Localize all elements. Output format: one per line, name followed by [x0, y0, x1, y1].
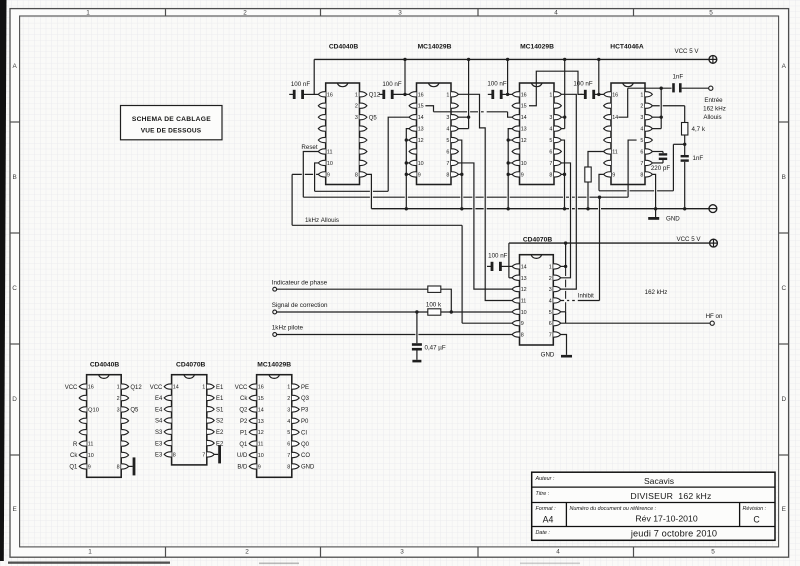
svg-text:7: 7	[202, 452, 205, 458]
svg-text:E2: E2	[216, 430, 224, 436]
svg-text:CD4040B: CD4040B	[90, 362, 120, 369]
capacitor 100 nF	[487, 253, 508, 271]
svg-text:6: 6	[446, 150, 449, 156]
terminal Indicateur de phase	[272, 279, 328, 291]
svg-text:S1: S1	[216, 407, 224, 413]
svg-text:10: 10	[258, 453, 264, 459]
wire R3 to U5 pin 10	[441, 311, 512, 313]
svg-text:16: 16	[612, 92, 618, 98]
wire C6 to Entree terminal	[682, 87, 709, 89]
capacitor C9 0,47 uF	[412, 312, 446, 362]
svg-text:Q0: Q0	[301, 442, 310, 448]
svg-text:3: 3	[640, 115, 643, 121]
svg-text:E3: E3	[155, 453, 163, 459]
svg-text:14: 14	[173, 385, 179, 391]
svg-text:13: 13	[258, 419, 264, 425]
svg-text:Titre :: Titre :	[536, 491, 550, 497]
svg-text:6: 6	[549, 321, 552, 327]
svg-text:2: 2	[355, 104, 358, 110]
wire U3 pin 15 over body to C4	[529, 71, 582, 106]
svg-text:P1: P1	[240, 430, 248, 436]
svg-text:1: 1	[88, 549, 92, 556]
wire U5 pin 4 from reset drop	[561, 300, 600, 302]
svg-text:100 nF: 100 nF	[573, 81, 592, 88]
svg-text:11: 11	[521, 298, 527, 304]
svg-text:1: 1	[640, 92, 643, 98]
node R4/R3 junction	[450, 310, 453, 313]
svg-text:Q1: Q1	[69, 465, 78, 471]
svg-text:3: 3	[549, 115, 552, 121]
svg-text:9: 9	[418, 172, 421, 178]
svg-text:MC14029B: MC14029B	[520, 44, 554, 51]
wire R1 to GND bus	[587, 182, 589, 209]
svg-text:Ck: Ck	[240, 396, 248, 402]
svg-text:6: 6	[287, 442, 290, 448]
wire U3 pin 5 / pin 8 to GND bus	[561, 140, 564, 209]
svg-text:D: D	[781, 396, 786, 403]
svg-text:11: 11	[88, 442, 94, 448]
wire R4 to node	[441, 289, 452, 312]
svg-text:Q5: Q5	[130, 408, 139, 414]
node U4 pin3 junction	[660, 87, 663, 119]
node U5 pin1 junction	[564, 265, 567, 268]
resistor R4	[428, 286, 441, 292]
svg-text:3: 3	[355, 115, 358, 121]
wire U3 pins 13,12,10,9 to GND bus	[508, 129, 512, 209]
svg-text:8: 8	[287, 464, 290, 470]
svg-text:SCHEMA DE CABLAGE: SCHEMA DE CABLAGE	[132, 116, 211, 123]
wire U4 pin 2 to R2 4,7k	[652, 106, 684, 123]
svg-text:9: 9	[88, 464, 91, 470]
CD4040B U6	[65, 362, 143, 478]
node VCC rail / U5 pin1 riser	[564, 241, 567, 244]
svg-text:1nF: 1nF	[693, 155, 704, 162]
node junction dots on GND bus	[405, 207, 687, 210]
svg-text:GND: GND	[301, 465, 315, 471]
wire U2 pin 1 to U5 pin 11	[458, 94, 512, 300]
svg-text:9: 9	[258, 464, 261, 470]
svg-text:9: 9	[521, 172, 524, 178]
svg-text:Ck: Ck	[70, 453, 78, 459]
svg-text:10: 10	[327, 161, 333, 167]
wire U3 pin 1 to U5 pin 3	[561, 94, 577, 289]
svg-text:3: 3	[398, 10, 402, 17]
wire U4 pins 3,4 to C6 node	[652, 88, 661, 128]
wire U1 pin 8 to GND bus	[367, 174, 372, 208]
svg-text:13: 13	[418, 127, 424, 133]
MC14029B U8	[235, 362, 315, 478]
svg-text:Q12: Q12	[369, 93, 381, 99]
capacitor 100 nF	[379, 81, 402, 99]
svg-text:Date :: Date :	[536, 530, 551, 536]
svg-text:1: 1	[355, 92, 358, 98]
svg-text:16: 16	[88, 385, 94, 391]
CD4040B U1	[318, 44, 380, 185]
svg-text:Q2: Q2	[239, 408, 248, 414]
svg-text:1: 1	[549, 92, 552, 98]
power terminal 0V (minus)	[709, 205, 717, 213]
svg-text:VCC: VCC	[150, 385, 163, 391]
svg-text:CI: CI	[301, 430, 307, 436]
svg-text:Q12: Q12	[130, 385, 142, 391]
svg-text:HCT4046A: HCT4046A	[610, 44, 644, 51]
svg-text:A: A	[782, 63, 787, 70]
svg-text:B/D: B/D	[237, 465, 248, 471]
svg-text:E4: E4	[155, 407, 163, 413]
svg-text:R: R	[73, 442, 78, 448]
wire U2 pin 5 / pin 8 to GND bus	[458, 140, 461, 209]
svg-text:Révision :: Révision :	[743, 506, 767, 512]
svg-text:220 pF: 220 pF	[651, 165, 670, 172]
svg-text:CO: CO	[301, 453, 310, 459]
svg-text:E1: E1	[216, 396, 224, 402]
svg-text:3: 3	[446, 115, 449, 121]
svg-text:8: 8	[521, 333, 524, 339]
wire U1 pin 9 to 1kHz Allouis bus	[292, 174, 462, 323]
svg-text:4: 4	[287, 419, 290, 425]
svg-text:2: 2	[243, 10, 247, 17]
wire U5 pin1 down to pins 5,6 (crossing gaps)	[561, 266, 566, 323]
svg-text:VUE DE DESSOUS: VUE DE DESSOUS	[141, 127, 202, 134]
wire R2 to junction node	[684, 135, 686, 144]
svg-text:10: 10	[521, 310, 527, 316]
capacitor 100 nF	[573, 81, 595, 100]
svg-text:16: 16	[258, 385, 264, 391]
capacitor C8 1nF	[681, 144, 704, 209]
svg-text:12: 12	[258, 430, 264, 436]
svg-text:3: 3	[287, 407, 290, 413]
svg-text:7: 7	[446, 161, 449, 167]
svg-text:16: 16	[327, 92, 333, 98]
svg-text:100 nF: 100 nF	[488, 253, 507, 260]
svg-text:Numéro du document ou référenc: Numéro du document ou référence :	[570, 506, 657, 512]
svg-text:Inhibit: Inhibit	[578, 293, 594, 299]
node C3/U3 pin16 junction	[506, 93, 509, 96]
wire junction to U4 pin 9 (under body)	[599, 144, 685, 191]
svg-text:5: 5	[287, 430, 290, 436]
svg-text:E3: E3	[155, 441, 163, 447]
svg-text:Rév 17-10-2010: Rév 17-10-2010	[635, 513, 697, 523]
svg-text:5: 5	[709, 10, 713, 17]
MC14029B U2	[409, 44, 458, 185]
svg-text:Signal de correction: Signal de correction	[272, 302, 328, 309]
terminal 1kHz pilote	[272, 325, 304, 337]
svg-text:1: 1	[202, 385, 205, 391]
capacitor C7 220 pF	[651, 152, 670, 172]
wire VCC rail (middle)	[509, 243, 709, 278]
resistor R1	[585, 167, 591, 182]
terminal Signal de correction	[272, 302, 328, 314]
svg-text:6: 6	[640, 150, 643, 156]
svg-text:1: 1	[86, 10, 90, 17]
svg-text:VCC 5 V: VCC 5 V	[676, 236, 701, 243]
svg-text:CD4040B: CD4040B	[329, 44, 359, 51]
svg-text:DIVISEUR 162 kHz: DIVISEUR 162 kHz	[630, 491, 711, 501]
wire U5 pin 7 to ground	[561, 335, 567, 355]
svg-text:7: 7	[549, 333, 552, 339]
svg-text:P3: P3	[301, 408, 309, 414]
svg-text:4: 4	[554, 10, 558, 17]
wire C1 to U1 pin 16	[303, 93, 319, 95]
wire reset bus drop to U5 pin 4	[599, 197, 601, 300]
svg-text:C: C	[781, 285, 786, 292]
svg-text:15: 15	[418, 104, 424, 110]
svg-text:8: 8	[640, 172, 643, 178]
svg-text:3: 3	[400, 549, 404, 556]
svg-text:U/D: U/D	[237, 453, 248, 459]
wire U5 pin 6 to HF on terminal	[561, 322, 710, 324]
svg-text:7: 7	[640, 161, 643, 167]
svg-text:1: 1	[446, 92, 449, 98]
svg-text:14: 14	[521, 115, 527, 121]
node junction dots on VCC top rail	[403, 58, 600, 61]
title block	[532, 472, 775, 540]
node C4/U4 pin16 junction	[597, 93, 600, 96]
svg-text:14: 14	[258, 407, 264, 413]
wire C3 to U3 pin 16	[501, 59, 512, 94]
ground tick U7 pin 7	[214, 445, 221, 463]
svg-text:1: 1	[549, 264, 552, 270]
wire U2 pin 15 to U3 pin 14 (chain, over body)	[425, 106, 512, 117]
svg-text:2: 2	[287, 396, 290, 402]
wire C4 to U4 pin 16	[594, 59, 604, 94]
ground symbol GND (U5)	[541, 352, 572, 359]
terminal Entree 162 kHz Allouis	[703, 86, 726, 121]
svg-text:VCC: VCC	[235, 385, 248, 391]
svg-text:4: 4	[446, 127, 449, 133]
svg-text:S4: S4	[155, 419, 163, 425]
node R2/C8/U4 pin9 junction	[683, 143, 686, 146]
svg-text:12: 12	[521, 287, 527, 293]
svg-text:1nF: 1nF	[672, 74, 683, 81]
svg-text:11: 11	[258, 442, 264, 448]
svg-text:D: D	[12, 396, 17, 403]
svg-text:8: 8	[446, 172, 449, 178]
svg-text:MC14029B: MC14029B	[257, 362, 291, 369]
svg-text:7: 7	[287, 453, 290, 459]
wire U1 pin 11 Reset to reset bus	[303, 152, 318, 198]
terminal HF on	[706, 313, 723, 326]
wire U2 pins 13,12,10,9 to GND bus	[406, 129, 409, 209]
node U3 pin3 junction	[563, 115, 566, 118]
svg-text:15: 15	[521, 104, 527, 110]
node dots U3 left pins	[507, 138, 510, 176]
wire U1 pin 10 to U2 pin 14 (chain)	[315, 117, 410, 191]
svg-text:GND: GND	[541, 352, 555, 359]
CD4070B U5	[512, 236, 561, 345]
svg-text:14: 14	[418, 115, 424, 121]
svg-text:GND: GND	[666, 216, 680, 223]
svg-text:13: 13	[521, 127, 527, 133]
wire VCC rail to U2 pins 3,4	[458, 59, 468, 128]
svg-text:15: 15	[258, 396, 264, 402]
svg-text:10: 10	[88, 453, 94, 459]
svg-text:14: 14	[612, 115, 618, 121]
wire U2 pin 7 to U5 pin 12	[458, 163, 512, 289]
ground symbol GND (U4)	[648, 216, 680, 223]
CD4070B U7	[150, 362, 224, 465]
svg-text:Sacavis: Sacavis	[644, 476, 674, 486]
svg-text:5: 5	[549, 138, 552, 144]
svg-text:Entrée: Entrée	[704, 97, 723, 104]
svg-text:VCC 5 V: VCC 5 V	[674, 48, 699, 55]
node reset bus to U5 pin 4 drop	[598, 196, 601, 199]
svg-text:3: 3	[549, 287, 552, 293]
svg-text:7: 7	[549, 161, 552, 167]
svg-text:4: 4	[640, 127, 643, 133]
wire C2 to U2 pin 16	[392, 59, 409, 94]
power terminal VCC 5 V (top)	[674, 48, 716, 63]
svg-text:162 kHz: 162 kHz	[703, 106, 726, 113]
svg-text:12: 12	[418, 138, 424, 144]
note box SCHEMA DE CABLAGE / VUE DE DESSOUS	[121, 106, 223, 140]
svg-text:Q5: Q5	[369, 115, 378, 121]
svg-text:5: 5	[549, 310, 552, 316]
svg-text:10: 10	[418, 161, 424, 167]
svg-text:S3: S3	[155, 430, 163, 436]
node 0,47uF tap	[415, 310, 418, 313]
svg-text:9: 9	[327, 172, 330, 178]
svg-text:2: 2	[117, 396, 120, 402]
svg-text:S2: S2	[216, 419, 224, 425]
svg-text:P0: P0	[301, 419, 309, 425]
svg-text:Q1: Q1	[239, 442, 248, 448]
svg-text:11: 11	[327, 150, 333, 156]
node dots U2 left pins	[405, 138, 408, 176]
svg-text:MC14029B: MC14029B	[418, 44, 452, 51]
wire Indicateur de phase to R4	[277, 288, 428, 290]
svg-text:2: 2	[245, 549, 249, 556]
svg-text:Q3: Q3	[301, 396, 310, 402]
svg-text:CD4070B: CD4070B	[523, 236, 553, 243]
svg-text:8: 8	[117, 464, 120, 470]
svg-text:8: 8	[355, 172, 358, 178]
svg-text:14: 14	[521, 264, 527, 270]
svg-text:Auteur :: Auteur :	[535, 476, 555, 482]
svg-text:Allouis: Allouis	[703, 114, 721, 121]
node C2/U2 pin16 junction	[403, 93, 406, 96]
VCC top rail wire	[314, 59, 708, 94]
svg-text:16: 16	[418, 92, 424, 98]
svg-text:B: B	[12, 174, 16, 181]
resistor R2 4,7k	[682, 123, 688, 136]
svg-text:C: C	[12, 285, 17, 292]
svg-text:9: 9	[612, 172, 615, 178]
svg-text:Indicateur de phase: Indicateur de phase	[272, 279, 328, 286]
wire U4 pin 14 over body to C6 1nF	[618, 88, 671, 117]
svg-text:8: 8	[549, 172, 552, 178]
svg-text:4: 4	[556, 549, 560, 556]
svg-text:16: 16	[521, 92, 527, 98]
svg-text:4: 4	[549, 298, 552, 304]
svg-text:100 nF: 100 nF	[382, 81, 401, 88]
capacitor 100 nF	[289, 81, 310, 99]
svg-text:100 nF: 100 nF	[291, 81, 310, 88]
svg-text:P2: P2	[240, 419, 248, 425]
svg-text:1kHz Allouis: 1kHz Allouis	[305, 217, 339, 224]
wire GND bus	[371, 208, 709, 210]
node U2 pin3 junction	[467, 115, 470, 118]
svg-text:6: 6	[549, 150, 552, 156]
svg-text:Format :: Format :	[536, 506, 557, 512]
wire U4 pin 5 through body to reset bus	[628, 140, 637, 197]
svg-text:1: 1	[287, 385, 290, 391]
resistor R3 100 k	[428, 309, 441, 315]
svg-text:1: 1	[117, 385, 120, 391]
node U3 pin8 junction	[563, 173, 566, 176]
svg-text:162 kHz: 162 kHz	[645, 289, 668, 296]
svg-text:1kHz pilote: 1kHz pilote	[272, 325, 304, 332]
wire Signal de correction to R3	[277, 311, 428, 313]
svg-text:8: 8	[173, 452, 176, 458]
svg-text:A4: A4	[543, 514, 554, 524]
svg-text:A: A	[12, 63, 17, 70]
svg-text:0,47 µF: 0,47 µF	[425, 345, 446, 352]
wire U3 pin 7 to U5 pin 2	[561, 163, 571, 278]
svg-text:4: 4	[549, 127, 552, 133]
wire 1kHz Allouis to U5 pin 9	[462, 322, 512, 324]
wire VCC rail to U3 pins 3,4	[561, 59, 564, 128]
svg-text:5: 5	[446, 138, 449, 144]
svg-text:2: 2	[549, 276, 552, 282]
svg-text:9: 9	[521, 321, 524, 327]
svg-text:C: C	[753, 514, 760, 524]
svg-text:5: 5	[711, 549, 715, 556]
capacitor 100 nF	[487, 81, 506, 100]
svg-text:4,7 k: 4,7 k	[692, 126, 706, 133]
svg-text:12: 12	[521, 138, 527, 144]
wire 1kHz pilote to U5 pin 8	[277, 334, 512, 336]
svg-text:Q10: Q10	[88, 408, 99, 414]
svg-text:10: 10	[521, 161, 527, 167]
svg-text:CD4070B: CD4070B	[176, 362, 206, 369]
svg-text:11: 11	[612, 150, 618, 156]
wire U5 pin 1 to VCC rail	[561, 243, 566, 266]
wire U4 pin 8 to GND	[652, 174, 655, 217]
svg-text:B: B	[782, 174, 786, 181]
svg-text:100 nF: 100 nF	[487, 81, 506, 88]
svg-text:E4: E4	[155, 396, 163, 402]
svg-text:5: 5	[640, 138, 643, 144]
power terminal VCC 5 V (middle)	[676, 236, 717, 247]
svg-text:E: E	[12, 506, 16, 513]
svg-text:Reset: Reset	[301, 144, 317, 151]
svg-text:VCC: VCC	[65, 385, 78, 391]
svg-text:E1: E1	[216, 385, 224, 391]
svg-text:13: 13	[521, 276, 527, 282]
node U2 pin8 junction	[460, 173, 463, 176]
svg-text:100 k: 100 k	[426, 302, 442, 309]
svg-text:HF on: HF on	[706, 313, 723, 320]
ground tick U6 pin 8	[129, 457, 136, 475]
MC14029B U3	[512, 44, 561, 185]
svg-text:2: 2	[640, 104, 643, 110]
svg-text:jeudi 7 octobre 2010: jeudi 7 octobre 2010	[630, 529, 717, 539]
HCT4046A U4	[604, 44, 653, 185]
svg-text:3: 3	[117, 407, 120, 413]
svg-text:E: E	[782, 506, 786, 513]
svg-text:PE: PE	[301, 385, 309, 391]
wire C5 to U5 pin 14	[501, 265, 512, 267]
wire reset bus	[303, 196, 628, 198]
capacitor C6 1nF	[672, 74, 683, 93]
wire U4 pin 11 to R1	[588, 152, 604, 168]
